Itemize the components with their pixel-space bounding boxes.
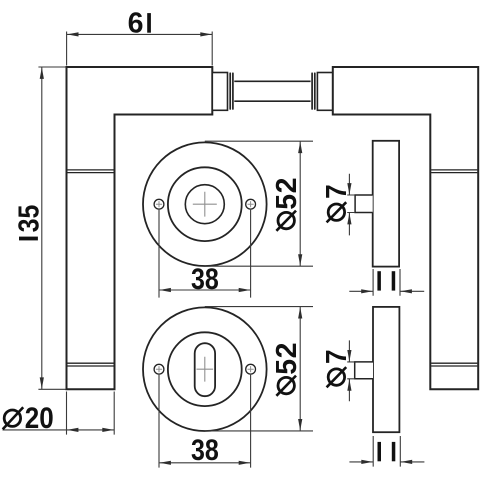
- dim O7 top: arrow lines: [348, 174, 350, 236]
- dim 38 top: line: [159, 289, 251, 291]
- dim O20 extension lines: [67, 392, 115, 435]
- svg-text:52: 52: [271, 342, 303, 375]
- rosette 1 left screw: [154, 199, 164, 209]
- dim O7 top: text: [328, 204, 344, 220]
- dim 11 top: extension lines: [373, 269, 400, 296]
- dim O52 bottom: text: [278, 377, 294, 393]
- svg-text:38: 38: [191, 262, 219, 295]
- dim 135 extension lines: [38, 67, 65, 389]
- svg-text:52: 52: [271, 177, 303, 210]
- svg-text:7: 7: [320, 349, 352, 364]
- svg-text:35: 35: [13, 205, 45, 233]
- rosette 2 outer circle: [143, 307, 267, 431]
- dim O7 top: extension ticks: [347, 195, 355, 213]
- right handle front view outline: [333, 67, 478, 389]
- rosette 1 side view stub: [355, 195, 373, 213]
- rosette 2 side view stub: [355, 362, 373, 379]
- dim O52 top: text: [278, 212, 294, 228]
- dim O52 bottom: line: [299, 307, 301, 431]
- rosette 1 middle circle: [168, 167, 242, 241]
- rosette 1 right screw: [246, 199, 256, 209]
- dim O20 text: [4, 410, 20, 426]
- dim 61 extension lines: [67, 32, 213, 66]
- dim O52 top: extension lines: [205, 141, 313, 266]
- dim O20 line: [3, 429, 115, 431]
- right handle grip upper joint: [431, 170, 477, 173]
- svg-text:7: 7: [320, 184, 352, 199]
- dim 11 bottom: arrow lines: [349, 461, 424, 463]
- right handle neck: [317, 73, 332, 111]
- dim 11 top: text: [377, 271, 381, 290]
- svg-text:20: 20: [25, 402, 54, 435]
- rosette 2 side view body: [373, 307, 399, 432]
- spindle: [234, 81, 310, 101]
- dim 11 bottom: extension lines: [373, 436, 400, 467]
- dim 38 bottom: extension lines: [159, 375, 251, 468]
- rosette 1 inner circle: [185, 185, 224, 224]
- dim 38 bottom: text: [191, 433, 219, 466]
- dim O7 bottom: extension ticks: [347, 362, 355, 379]
- rosette 2 left screw: [154, 364, 164, 374]
- left handle collar ring: [230, 73, 233, 109]
- dim O52 top: line: [299, 141, 301, 266]
- rosette 2 keyhole slot: [195, 343, 215, 396]
- left handle neck: [212, 73, 227, 111]
- right handle collar ring: [312, 73, 315, 109]
- svg-text:38: 38: [191, 433, 219, 466]
- dim O7 bottom: text: [328, 369, 344, 385]
- left handle grip upper joint: [67, 170, 113, 173]
- rosette 2 center cross: [197, 357, 214, 382]
- rosette 1 side view body: [373, 141, 399, 267]
- dim O52 bottom: extension lines: [205, 307, 313, 431]
- dim 11 top: arrow lines: [349, 290, 424, 292]
- dim 38 bottom: line: [159, 462, 251, 464]
- dim 61 text: [128, 8, 144, 40]
- dim 135 text: [19, 237, 38, 241]
- rosette 2 middle circle: [168, 332, 242, 406]
- dim 11 bottom: text: [378, 442, 382, 461]
- dim O7 bottom: arrow lines: [348, 340, 350, 401]
- dim 38 top: text: [191, 262, 219, 295]
- dim 38 top: extension lines: [159, 210, 251, 298]
- left handle front view outline: [67, 67, 213, 389]
- rosette 1 outer circle: [143, 142, 267, 266]
- svg-text:6: 6: [128, 8, 144, 40]
- rosette 2 right screw: [246, 364, 256, 374]
- right handle grip lower joint: [431, 363, 477, 366]
- dim 61 line: [67, 33, 213, 35]
- left handle grip lower joint: [67, 363, 113, 366]
- rosette 1 center cross: [193, 192, 217, 217]
- dim 135 line: [41, 67, 43, 389]
